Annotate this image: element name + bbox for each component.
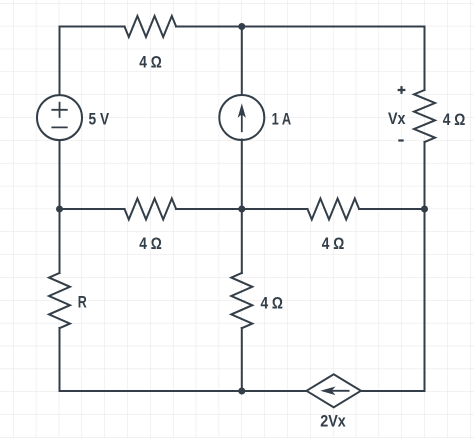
wire left vertical mid [59, 140, 61, 273]
resistor R zigzag [49, 273, 70, 328]
wire middle branch mid [241, 140, 243, 274]
2Vx arrow shaft [331, 390, 349, 392]
svg-text:2Vx: 2Vx [320, 412, 346, 430]
resistor 4ohm right zigzag [414, 90, 435, 142]
wire middle horizontal left [60, 208, 125, 210]
voltage source V1 circle [37, 95, 82, 140]
svg-text:4 Ω: 4 Ω [139, 235, 162, 253]
resistor 4ohm middle-right zigzag [308, 199, 360, 220]
wire bottom-left horizontal [60, 390, 307, 392]
svg-text:4 Ω: 4 Ω [139, 54, 162, 72]
I1 arrow shaft [241, 113, 243, 131]
V1 plus sign [52, 103, 67, 117]
svg-text:Vx: Vx [388, 110, 406, 128]
wire left vertical upper [59, 27, 61, 96]
label plus Vx [398, 86, 406, 94]
wire right vertical upper [424, 27, 426, 91]
junction node right-middle [421, 206, 428, 213]
wire top-left horizontal [60, 26, 125, 28]
2Vx arrowhead [320, 387, 335, 396]
I1 arrowhead [238, 103, 246, 118]
V1 minus sign [52, 126, 67, 128]
wire middle horizontal right [359, 208, 424, 210]
junction node left-middle [56, 206, 63, 213]
label minus Vx [398, 139, 403, 141]
wire left vertical lower [59, 328, 61, 391]
resistor 4ohm middle vertical zigzag [231, 273, 252, 328]
wire top-right horizontal [176, 26, 424, 28]
resistor 4ohm middle-left zigzag [125, 199, 177, 220]
wire bottom-right horizontal [361, 390, 425, 392]
svg-text:5 V: 5 V [89, 110, 110, 128]
wire middle horizontal center [176, 208, 307, 210]
current source I1 circle [219, 95, 264, 140]
wire middle branch lower [241, 328, 243, 391]
resistor 4ohm top zigzag [125, 16, 177, 37]
svg-text:1 A: 1 A [272, 110, 292, 128]
svg-text:4 Ω: 4 Ω [322, 235, 345, 253]
junction node top-middle [238, 23, 245, 30]
svg-text:4 Ω: 4 Ω [443, 111, 466, 129]
junction node bottom-middle [238, 388, 245, 395]
svg-text:R: R [78, 293, 87, 311]
wire right vertical lower [424, 142, 426, 391]
wire middle branch upper [241, 27, 243, 96]
dependent source 2Vx diamond [307, 374, 361, 407]
junction node center [238, 206, 245, 213]
svg-text:4 Ω: 4 Ω [260, 294, 283, 312]
